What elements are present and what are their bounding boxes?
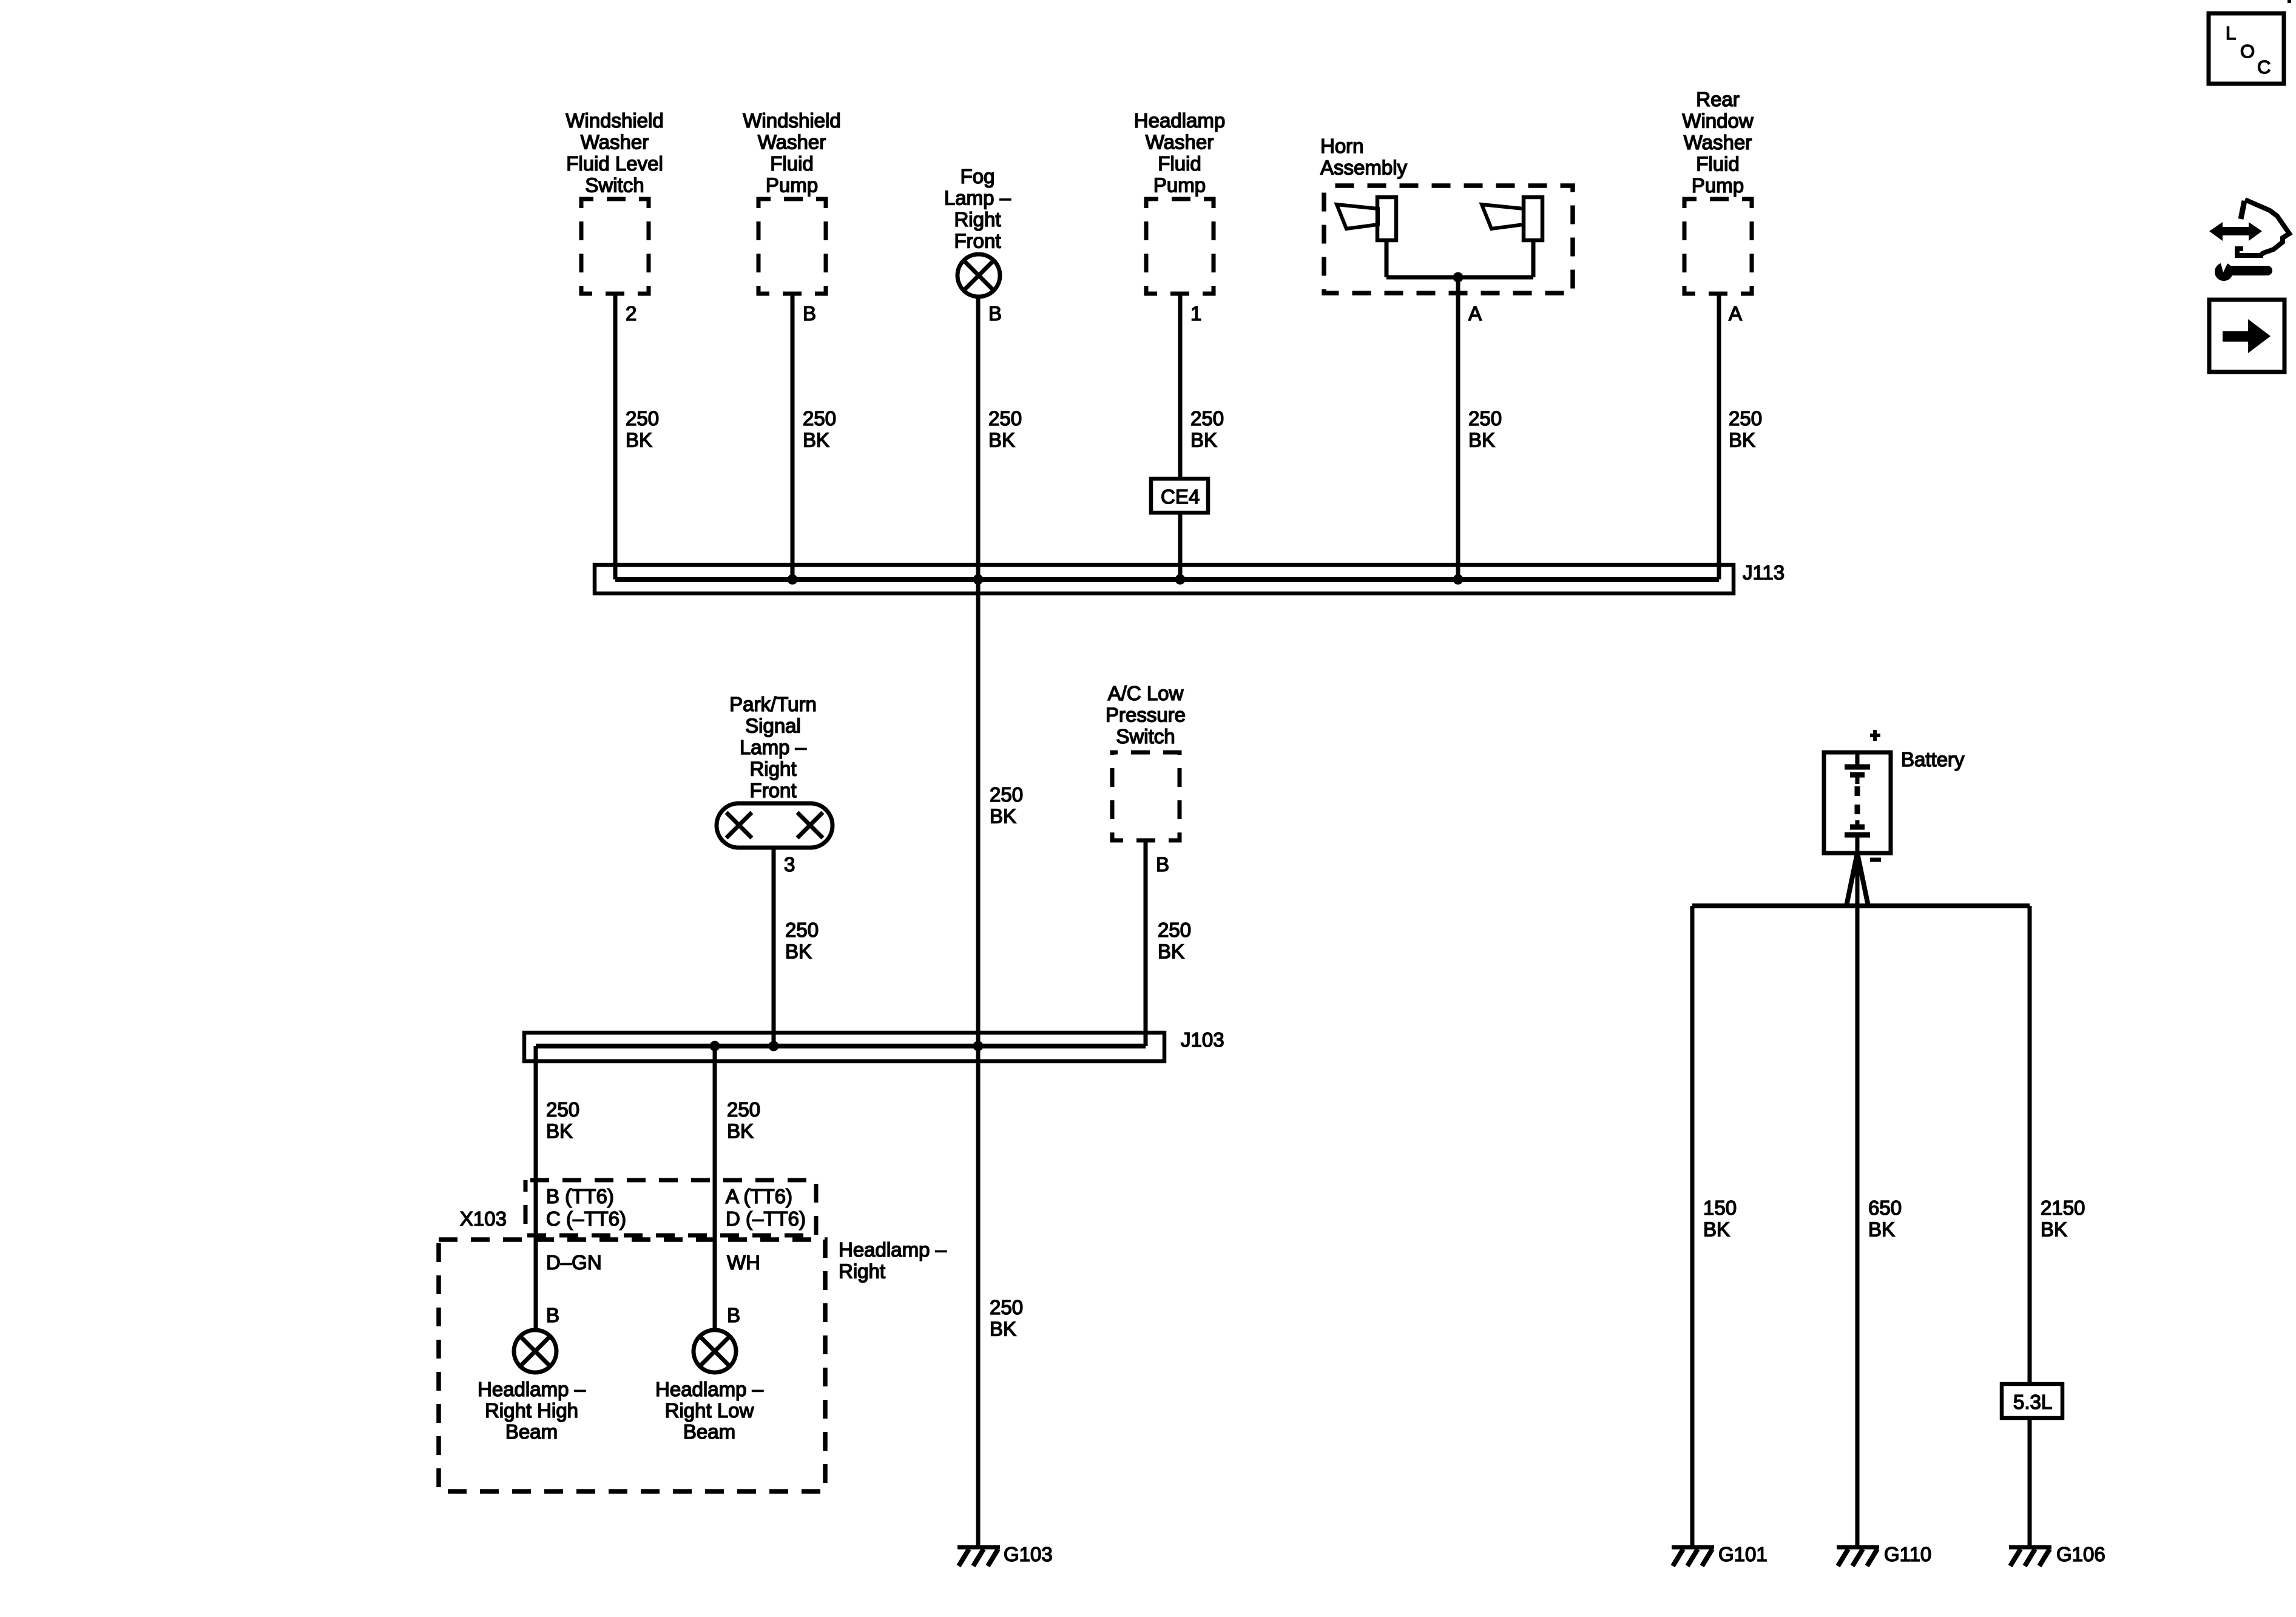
svg-text:Park/Turn: Park/Turn	[729, 693, 817, 715]
svg-text:3: 3	[784, 853, 795, 876]
svg-text:Fog: Fog	[961, 165, 995, 187]
svg-text:BK: BK	[626, 429, 652, 451]
svg-text:Pump: Pump	[1692, 174, 1744, 197]
svg-text:Windshield: Windshield	[743, 109, 840, 132]
svg-text:B (TT6): B (TT6)	[546, 1185, 614, 1207]
svg-text:BK: BK	[2041, 1218, 2067, 1241]
svg-text:2150: 2150	[2041, 1197, 2085, 1219]
svg-text:A: A	[1468, 302, 1482, 325]
svg-text:J103: J103	[1181, 1028, 1224, 1051]
svg-text:Window: Window	[1682, 110, 1754, 132]
svg-text:Pump: Pump	[1153, 174, 1206, 197]
svg-text:Washer: Washer	[581, 131, 649, 154]
svg-text:D (–TT6): D (–TT6)	[726, 1207, 806, 1230]
svg-text:A (TT6): A (TT6)	[726, 1185, 792, 1207]
svg-text:Right: Right	[954, 208, 1001, 231]
svg-text:BK: BK	[1468, 429, 1495, 451]
svg-text:L: L	[2226, 22, 2236, 44]
svg-text:BK: BK	[1868, 1218, 1895, 1241]
svg-text:250: 250	[990, 783, 1023, 806]
svg-text:Windshield: Windshield	[566, 109, 663, 132]
svg-text:B: B	[727, 1304, 740, 1326]
svg-text:D–GN: D–GN	[546, 1251, 602, 1274]
svg-text:150: 150	[1703, 1197, 1737, 1219]
svg-text:BK: BK	[1703, 1218, 1730, 1241]
svg-text:250: 250	[1729, 407, 1762, 430]
svg-text:Headlamp –: Headlamp –	[478, 1378, 586, 1400]
svg-text:Right High: Right High	[485, 1399, 578, 1422]
svg-text:Fluid: Fluid	[1696, 153, 1740, 175]
svg-text:Fluid: Fluid	[1158, 152, 1201, 175]
svg-text:Fluid: Fluid	[770, 152, 814, 175]
svg-text:Battery: Battery	[1901, 748, 1965, 771]
svg-text:Signal: Signal	[745, 715, 801, 737]
svg-text:BK: BK	[990, 805, 1016, 828]
svg-text:G103: G103	[1004, 1543, 1053, 1565]
svg-text:Headlamp –: Headlamp –	[655, 1378, 764, 1400]
svg-text:Right: Right	[839, 1260, 885, 1283]
svg-text:Beam: Beam	[683, 1420, 735, 1443]
svg-text:250: 250	[785, 919, 819, 941]
svg-text:Beam: Beam	[505, 1420, 558, 1443]
svg-text:B: B	[1156, 853, 1169, 876]
svg-text:Right Low: Right Low	[665, 1399, 754, 1422]
svg-text:Washer: Washer	[1684, 131, 1752, 154]
svg-text:G106: G106	[2056, 1543, 2105, 1565]
svg-text:BK: BK	[803, 429, 829, 451]
svg-text:250: 250	[546, 1098, 579, 1121]
svg-text:BK: BK	[1729, 429, 1755, 451]
svg-text:1: 1	[1190, 302, 1201, 325]
svg-text:BK: BK	[988, 429, 1015, 451]
svg-text:A: A	[1729, 302, 1742, 325]
svg-text:250: 250	[727, 1098, 760, 1121]
svg-text:Switch: Switch	[1116, 725, 1175, 748]
svg-text:CE4: CE4	[1161, 485, 1200, 508]
svg-text:650: 650	[1868, 1197, 1902, 1219]
svg-text:BK: BK	[546, 1120, 573, 1143]
svg-text:250: 250	[803, 407, 836, 430]
svg-text:Right: Right	[749, 758, 796, 780]
svg-text:Pump: Pump	[766, 174, 818, 197]
svg-text:O: O	[2240, 41, 2255, 62]
svg-text:250: 250	[990, 1296, 1023, 1318]
svg-text:BK: BK	[1158, 940, 1184, 963]
svg-text:Washer: Washer	[1146, 131, 1214, 154]
svg-text:Pressure: Pressure	[1106, 704, 1186, 726]
svg-text:Front: Front	[954, 230, 1001, 252]
svg-text:250: 250	[1468, 407, 1502, 430]
svg-text:BK: BK	[1190, 429, 1217, 451]
svg-text:250: 250	[626, 407, 659, 430]
svg-text:Lamp –: Lamp –	[944, 187, 1011, 209]
svg-text:C: C	[2257, 56, 2271, 78]
svg-text:250: 250	[1158, 919, 1191, 941]
svg-text:5.3L: 5.3L	[2013, 1391, 2052, 1413]
svg-text:BK: BK	[785, 940, 812, 963]
svg-text:B: B	[546, 1304, 559, 1326]
svg-text:B: B	[803, 302, 816, 325]
svg-text:Horn: Horn	[1320, 135, 1364, 157]
svg-text:Headlamp: Headlamp	[1134, 109, 1225, 132]
svg-text:G101: G101	[1718, 1543, 1768, 1565]
svg-text:250: 250	[988, 407, 1022, 430]
svg-text:Switch: Switch	[585, 174, 644, 197]
svg-text:Lamp –: Lamp –	[740, 736, 807, 758]
svg-text:BK: BK	[990, 1318, 1016, 1340]
svg-text:Assembly: Assembly	[1320, 157, 1408, 179]
svg-text:Rear: Rear	[1696, 88, 1740, 110]
svg-text:WH: WH	[727, 1251, 760, 1274]
svg-text:G110: G110	[1884, 1543, 1931, 1565]
svg-text:Headlamp –: Headlamp –	[839, 1238, 947, 1261]
svg-text:X103: X103	[460, 1207, 507, 1230]
svg-text:Washer: Washer	[758, 131, 826, 154]
svg-text:J113: J113	[1743, 561, 1784, 584]
svg-text:A/C Low: A/C Low	[1108, 682, 1184, 704]
svg-text:250: 250	[1190, 407, 1224, 430]
svg-text:BK: BK	[727, 1120, 754, 1143]
svg-text:Front: Front	[749, 779, 796, 802]
svg-text:B: B	[988, 302, 1002, 325]
svg-text:2: 2	[626, 302, 636, 325]
svg-text:Fluid Level: Fluid Level	[566, 152, 663, 175]
svg-text:C (–TT6): C (–TT6)	[546, 1207, 626, 1230]
